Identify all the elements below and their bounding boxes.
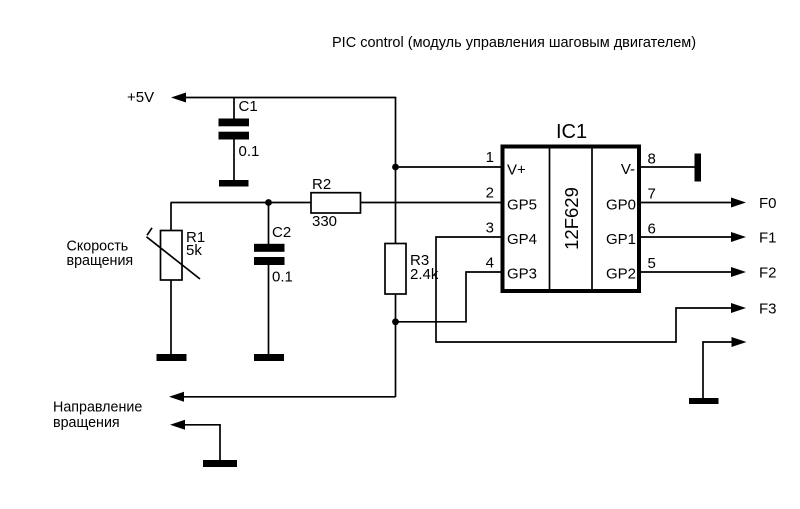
svg-text:F0: F0 (759, 195, 777, 212)
svg-text:GP3: GP3 (507, 266, 537, 283)
svg-text:+5V: +5V (127, 89, 154, 106)
svg-text:C1: C1 (239, 98, 258, 115)
wire pin 4 GP3 (396, 272, 504, 322)
svg-text:0.1: 0.1 (272, 269, 293, 286)
ground pin 8 (vertical bar) (695, 154, 702, 182)
wire bottom right to ground (703, 342, 733, 399)
svg-text:F1: F1 (759, 230, 777, 247)
svg-text:IC1: IC1 (556, 121, 587, 143)
svg-text:вращения: вращения (67, 253, 134, 269)
svg-text:Направление: Направление (53, 400, 142, 416)
svg-text:GP2: GP2 (606, 266, 636, 283)
svg-text:F3: F3 (759, 301, 777, 318)
svg-text:2.4k: 2.4k (410, 266, 439, 283)
svg-text:V-: V- (621, 161, 635, 178)
ground C1 (219, 180, 249, 187)
ground R1 (157, 354, 187, 361)
ground C2 (254, 354, 284, 361)
svg-text:330: 330 (312, 213, 337, 230)
arrow F0 (731, 198, 746, 208)
svg-text:1: 1 (486, 149, 494, 166)
arrow direction 2 (points left) (170, 420, 185, 430)
wire direction (Направление) (184, 396, 396, 398)
wire pin 8 V- (639, 166, 695, 168)
wire direction 2 (184, 425, 220, 461)
svg-text:6: 6 (648, 221, 656, 238)
wire pin 3 GP4 to F3 (436, 237, 733, 342)
wire pin 7 F0 (639, 202, 733, 204)
wire main vertical (lower) (395, 294, 397, 397)
svg-text:PIC control (модуль управления: PIC control (модуль управления шаговым д… (332, 35, 696, 51)
arrow +5V (points left) (171, 93, 186, 103)
svg-text:8: 8 (648, 151, 656, 168)
resistor R3 (385, 244, 439, 295)
svg-text:7: 7 (648, 186, 656, 203)
svg-text:вращения: вращения (53, 415, 120, 431)
node junction C2 (265, 199, 272, 206)
wire main vertical (upper) (395, 97, 397, 243)
arrow F1 (731, 232, 746, 242)
svg-text:V+: V+ (507, 162, 526, 179)
svg-text:5k: 5k (186, 242, 202, 259)
arrow F3 (points right) (731, 303, 746, 313)
resistor R2 (311, 176, 361, 230)
svg-text:3: 3 (486, 220, 494, 237)
svg-text:GP4: GP4 (507, 231, 537, 248)
svg-text:GP1: GP1 (606, 231, 636, 248)
svg-text:R2: R2 (312, 176, 331, 193)
svg-text:2: 2 (486, 185, 494, 202)
arrow direction (points left) (169, 392, 184, 402)
IC divider left (549, 147, 551, 292)
wire pin 6 F1 (639, 236, 733, 238)
wire to pin 1 (396, 166, 504, 168)
capacitor C1 (219, 98, 260, 182)
ground bottom right (689, 398, 719, 404)
svg-text:5: 5 (648, 255, 656, 272)
svg-text:12F629: 12F629 (561, 187, 582, 250)
wire +5V rail (184, 97, 396, 99)
wire R2 right to pin 2 (361, 202, 504, 204)
svg-text:C2: C2 (272, 224, 291, 241)
svg-text:GP0: GP0 (606, 197, 636, 214)
IC1 box (503, 147, 640, 292)
node junction R3 bottom (392, 318, 399, 325)
svg-text:0.1: 0.1 (239, 143, 260, 160)
wire R2 left (171, 202, 312, 204)
svg-text:GP5: GP5 (507, 197, 537, 214)
potentiometer R1 (147, 203, 206, 356)
arrow bottom right (732, 337, 747, 347)
arrow F2 (731, 267, 746, 277)
svg-text:F2: F2 (759, 265, 777, 282)
wire pin 5 F2 (639, 271, 733, 273)
ground direction 2 (203, 460, 237, 467)
IC divider right (591, 147, 593, 292)
capacitor C2 (254, 203, 293, 356)
svg-text:4: 4 (486, 255, 494, 272)
node junction V+ (392, 164, 399, 171)
